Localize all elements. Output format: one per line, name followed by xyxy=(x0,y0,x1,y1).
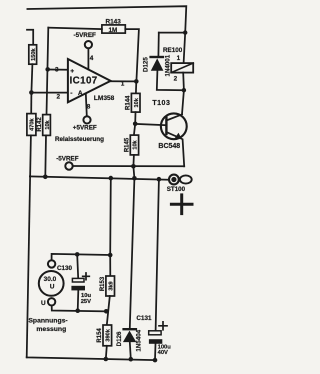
wire tie -5VREF line to rail xyxy=(133,166,134,178)
wire R144 bottom to base node xyxy=(134,112,136,124)
wire base xyxy=(135,124,166,125)
wire R153 line from rail xyxy=(109,178,112,255)
wire R145 top xyxy=(134,124,135,135)
wire C131 bottom xyxy=(154,344,157,360)
svg-text:D125: D125 xyxy=(142,57,149,72)
svg-text:ST100: ST100 xyxy=(167,186,186,193)
diode D126 xyxy=(116,329,143,351)
node R153 line on rail xyxy=(109,176,114,181)
wire D125 branch top xyxy=(157,33,159,56)
svg-text:470k: 470k xyxy=(29,117,35,130)
svg-text:10k: 10k xyxy=(134,97,140,107)
capacitor C130 xyxy=(71,273,89,290)
node C130 top junction xyxy=(75,252,80,257)
wire pin 3 xyxy=(48,69,68,71)
wire meter bottom line xyxy=(52,306,106,312)
wire 150k to node B xyxy=(31,64,32,92)
svg-text:Relaissteuerung: Relaissteuerung xyxy=(55,136,104,143)
svg-text:3k9: 3k9 xyxy=(108,281,114,290)
wire pin 8 xyxy=(86,94,87,117)
svg-text:390k: 390k xyxy=(105,328,111,341)
node meter line junction xyxy=(108,253,113,258)
svg-text:R154: R154 xyxy=(97,328,103,343)
svg-text:R145: R145 xyxy=(124,137,130,152)
node C131 on bottom rail xyxy=(153,358,158,363)
svg-text:1N5404: 1N5404 xyxy=(136,329,143,351)
node B junction (pin2 net) xyxy=(29,90,34,95)
relay coil RE100 xyxy=(171,63,193,73)
svg-text:10k: 10k xyxy=(45,119,51,129)
svg-text:8: 8 xyxy=(87,103,91,110)
svg-text:30.0: 30.0 xyxy=(44,276,57,283)
wire C130 bottom xyxy=(77,290,80,310)
svg-text:1M: 1M xyxy=(109,27,118,34)
svg-text:IC107: IC107 xyxy=(70,76,98,87)
wire R154 bottom xyxy=(106,346,107,359)
svg-text:U: U xyxy=(50,283,55,290)
wire R143 right down to output node xyxy=(125,29,139,81)
wire collector to relay node xyxy=(182,90,184,114)
node R154 on bottom rail xyxy=(104,357,109,362)
svg-text:1N4001: 1N4001 xyxy=(164,54,171,76)
svg-text:Spannungs-: Spannungs- xyxy=(28,317,67,324)
wire 470k down to bottom rail xyxy=(27,135,31,357)
svg-text:BC548: BC548 xyxy=(158,143,180,150)
resistor 470k xyxy=(27,114,36,136)
resistor R154 390k xyxy=(97,325,111,346)
svg-text:-: - xyxy=(70,90,72,97)
node relay top dot xyxy=(183,30,187,34)
node base junction xyxy=(133,122,138,127)
wire relay coil bottom xyxy=(182,73,185,91)
wire relay top feed xyxy=(159,32,185,34)
wire main rail to ST100 xyxy=(30,176,169,179)
wire R144 top xyxy=(135,81,137,93)
wire op-amp output pin 1 xyxy=(111,80,137,82)
capacitor C131 xyxy=(149,322,167,344)
svg-text:150k: 150k xyxy=(31,47,37,60)
wire meter top line xyxy=(52,254,111,260)
svg-text:2: 2 xyxy=(57,94,61,101)
node C131 line on rail xyxy=(157,177,162,182)
svg-text:-5VREF: -5VREF xyxy=(74,32,97,39)
wire top-left stub to 150k xyxy=(27,30,33,45)
svg-text:RE100: RE100 xyxy=(163,47,183,54)
wire emitter down xyxy=(183,140,185,167)
transistor T103 BC548 xyxy=(161,113,187,139)
op-amp U IC107 triangle xyxy=(68,59,111,102)
svg-text:4: 4 xyxy=(90,55,94,62)
node output junction xyxy=(134,79,139,84)
wire C130 top xyxy=(77,254,78,278)
wire R153 to R154 xyxy=(107,296,110,325)
resistor R142 10k xyxy=(37,115,51,136)
wire pin 4 xyxy=(87,49,89,70)
wire -5VREF emitter line xyxy=(73,165,184,167)
voltmeter M display xyxy=(39,260,64,305)
label Spannungsmessung xyxy=(28,317,67,333)
terminal +5VREF xyxy=(83,116,90,123)
terminal -5VREF lower xyxy=(65,162,72,169)
svg-text:40V: 40V xyxy=(158,350,168,356)
svg-text:-5VREF: -5VREF xyxy=(56,155,79,162)
wire R145 bottom xyxy=(132,155,135,166)
resistor R153 3k9 xyxy=(100,276,115,296)
svg-text:+5VREF: +5VREF xyxy=(73,125,97,132)
connector ST100 xyxy=(169,175,192,185)
svg-text:A: A xyxy=(78,90,83,97)
svg-text:1: 1 xyxy=(177,55,181,62)
wire feedback corner down to node A xyxy=(47,28,49,115)
wire top supply line xyxy=(27,6,186,32)
node A junction (pin3 net) xyxy=(45,67,50,72)
terminal -5VREF top xyxy=(85,41,92,48)
resistor R143 1M xyxy=(102,18,125,33)
wire D126 bottom xyxy=(130,342,131,359)
node R142 on rail xyxy=(43,175,48,180)
svg-text:messung: messung xyxy=(36,326,66,333)
node meter line to R154 xyxy=(104,309,109,314)
node D126 on bottom rail xyxy=(129,357,134,362)
svg-text:R142: R142 xyxy=(37,117,43,132)
svg-text:LM358: LM358 xyxy=(94,95,115,102)
wire R142 to rail xyxy=(44,135,47,176)
svg-text:R144: R144 xyxy=(126,95,132,110)
svg-text:R153: R153 xyxy=(100,276,106,291)
wire node B to R141 xyxy=(30,93,32,114)
svg-text:U: U xyxy=(41,300,46,307)
node tie on rail xyxy=(132,176,137,181)
diode D125 xyxy=(142,54,171,76)
wire pin 2 xyxy=(31,92,68,94)
svg-text:R143: R143 xyxy=(106,18,122,25)
svg-text:25V: 25V xyxy=(81,299,91,305)
svg-text:2: 2 xyxy=(174,75,178,82)
svg-text:T103: T103 xyxy=(152,100,170,107)
wire R143 left to feedback corner xyxy=(48,28,102,30)
node R145 on -5VREF line xyxy=(131,164,136,169)
svg-text:C130: C130 xyxy=(57,265,73,272)
svg-text:1: 1 xyxy=(121,81,125,88)
svg-text:+: + xyxy=(70,68,74,75)
node C130 bottom junction xyxy=(75,308,80,313)
wire C131 line from rail xyxy=(156,179,159,331)
node relay bottom dot xyxy=(182,88,186,92)
resistor R144 10k xyxy=(126,93,140,112)
svg-text:3: 3 xyxy=(55,67,59,74)
battery plus terminal symbol xyxy=(171,195,192,214)
svg-text:C131: C131 xyxy=(136,315,152,322)
resistor 150k xyxy=(29,45,37,64)
wire relay coil top xyxy=(184,33,186,64)
svg-text:10k: 10k xyxy=(133,139,139,149)
resistor R145 10k xyxy=(124,135,138,155)
wire bottom rail xyxy=(27,357,155,360)
wire D125 bottom to relay bottom node xyxy=(157,71,184,90)
svg-text:D126: D126 xyxy=(116,331,123,346)
wire D126 line from rail xyxy=(130,178,135,328)
wire R153 top xyxy=(109,255,111,276)
